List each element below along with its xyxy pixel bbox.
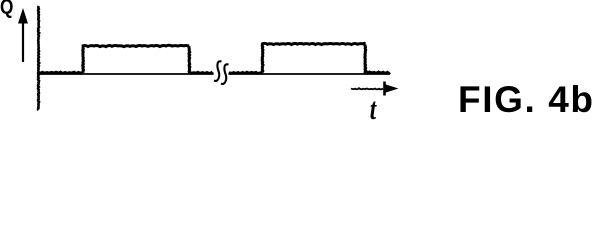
horizontal time axis right of break: [229, 73, 391, 75]
waveform baseline segment 3: [229, 72, 261, 73]
t-axis arrow: [351, 82, 399, 96]
pulse 1: [82, 45, 190, 73]
waveform baseline segment 4: [365, 72, 390, 73]
axis break symbol (double squiggle): [214, 61, 229, 84]
waveform baseline segment 1: [38, 72, 82, 73]
svg-text:FIG. 4b: FIG. 4b: [458, 79, 595, 120]
horizontal time axis left of break: [38, 73, 214, 75]
pulse 2: [262, 43, 366, 73]
svg-text:Q: Q: [0, 0, 13, 19]
svg-text:t: t: [370, 92, 378, 120]
waveform baseline segment 2: [189, 71, 213, 75]
vertical axis line: [38, 6, 39, 110]
Q-axis up arrow: [18, 8, 28, 62]
